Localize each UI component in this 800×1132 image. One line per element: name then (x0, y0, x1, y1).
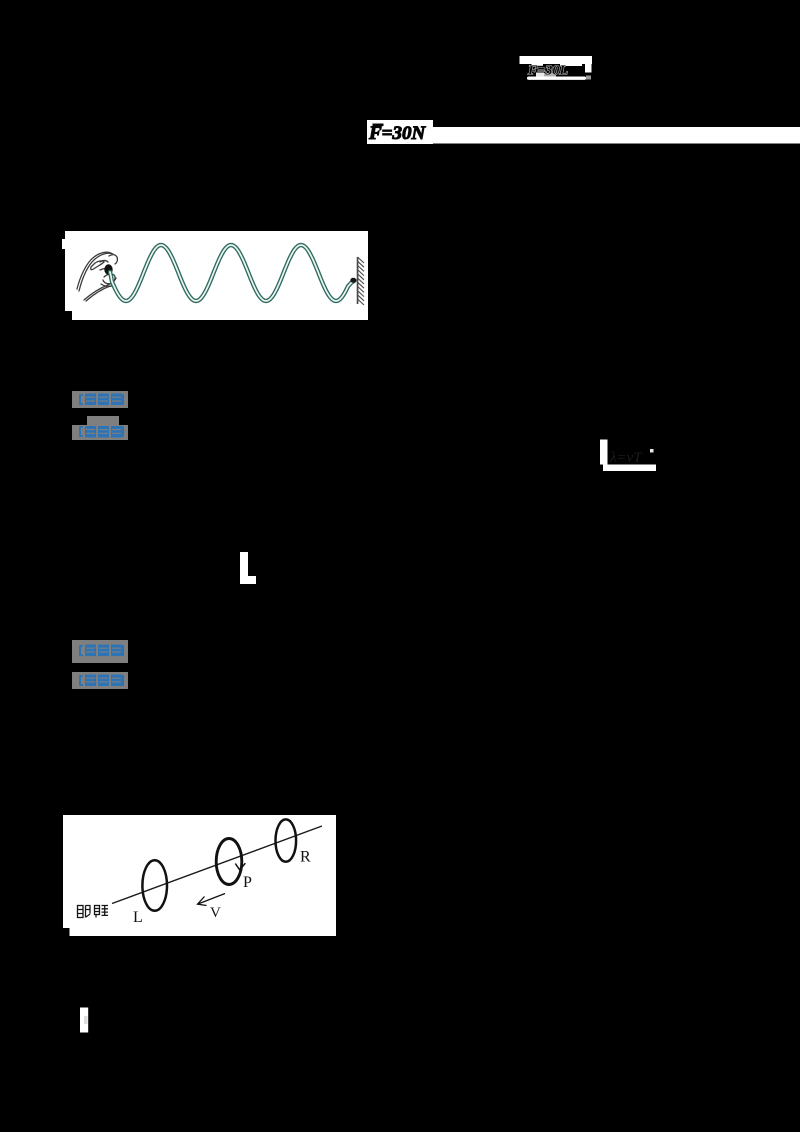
analysis label 1: blue CJK text 【解析】 (79, 426, 124, 438)
svg-text:F=30N: F=30N (368, 123, 426, 144)
wave figure: wall hatching (358, 257, 365, 305)
formula image F'=30L top: white underline strip (527, 76, 591, 80)
eye figure: white background box (63, 815, 336, 936)
wave figure: rope inner white core (110, 245, 355, 301)
wave figure: hand holding rope end (77, 252, 117, 301)
eye figure: label V (210, 905, 221, 921)
eye figure: velocity arrow (198, 894, 226, 906)
eye figure: label L (133, 909, 143, 926)
eye figure: ellipse P (216, 839, 242, 885)
highlighted blank bar right of F=30N (433, 127, 800, 144)
answer label 2: blue CJK text 【答案】 (79, 645, 124, 657)
wave figure: teal rope sine wave (outer) (110, 245, 355, 301)
formula fragment lambda=vT: white underline strip (603, 465, 656, 472)
wave figure: knot at wall (350, 278, 356, 283)
analysis label 2: blue CJK text 【解析】 (79, 675, 124, 687)
formula fragment lambda=vT: dim glyphs (609, 449, 654, 466)
eye figure: label P (243, 874, 252, 891)
eye figure: ellipse R (276, 819, 297, 861)
eye figure: CJK label 眼睛 (eye) (78, 906, 109, 918)
svg-text:λ=vT: λ=vT (609, 450, 643, 466)
formula image F'=30L top: white highlight bar (520, 56, 593, 64)
wave figure: wall post line (357, 257, 359, 304)
answer label 1: blue CJK text 【答案】 (79, 394, 124, 406)
wave figure: dark grip knob (104, 264, 112, 274)
eye figure: small arrow at P (235, 863, 245, 870)
formula image F'=30L top: glyph band (527, 64, 592, 79)
svg-text:R: R (300, 849, 311, 866)
answer label 1: gray highlight block (72, 391, 128, 440)
formula image F=30N: white box (367, 120, 433, 144)
eye figure: label R (300, 849, 311, 866)
eye figure: diagonal sight line (112, 826, 322, 904)
white fragment bottom left (80, 1008, 88, 1033)
svg-text:V: V (210, 905, 221, 921)
formula image F=30N: black bold text (368, 123, 426, 144)
white letter L fragment (240, 552, 256, 584)
svg-text:F=30L: F=30L (527, 64, 568, 79)
formula fragment lambda=vT: white left bar (600, 440, 608, 465)
svg-text:L: L (133, 909, 143, 926)
svg-text:P: P (243, 874, 252, 891)
wave figure: white background box (62, 231, 368, 320)
answer label 2: gray highlight block (72, 640, 128, 689)
eye figure: ellipse L (142, 860, 167, 911)
